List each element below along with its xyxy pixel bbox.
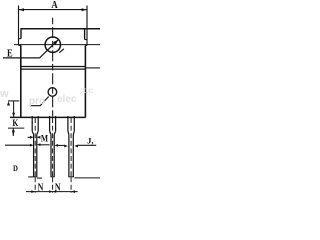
vertical centerline <box>52 18 54 117</box>
K arrow down <box>12 113 15 117</box>
arrowhead A right <box>82 8 88 11</box>
svg-text:N: N <box>55 181 61 192</box>
svg-text:pro: pro <box>29 96 45 107</box>
K upper extension line <box>8 100 19 102</box>
K lower extension line <box>8 127 24 129</box>
lead 1 <box>32 116 38 177</box>
D arrow at lead1 left <box>30 144 34 147</box>
watermark fragments <box>0 85 93 107</box>
K dimension line vertical <box>13 101 15 117</box>
lead 2 centerline <box>52 118 54 176</box>
label D <box>13 163 18 173</box>
N arrows at center lead <box>49 190 53 193</box>
lead 2 tip extension <box>52 177 54 193</box>
svg-text:J,: J, <box>87 135 93 145</box>
hole leader diagonal <box>40 40 58 58</box>
TO-220 package outline drawing <box>0 0 100 194</box>
body bottom edge <box>10 116 85 118</box>
dimension label A <box>51 0 57 11</box>
extension line A left / ear outer left <box>18 6 20 46</box>
lead tip line left stub <box>28 176 33 178</box>
small circle leader <box>30 97 49 106</box>
D dimension line left <box>5 144 30 146</box>
label E <box>7 48 13 60</box>
package top edge (extended to right image edge) <box>21 28 100 30</box>
svg-text:D: D <box>13 163 18 173</box>
right ear step <box>85 39 87 41</box>
D arrow at lead2 right <box>54 144 58 147</box>
left upper edge <box>20 28 22 38</box>
body line 1 <box>21 66 86 68</box>
lead 3 centerline <box>70 118 72 176</box>
label N left <box>38 181 44 192</box>
svg-text:elec: elec <box>57 94 77 105</box>
lead 3 tip extension <box>70 177 72 193</box>
D line right tail <box>78 144 97 146</box>
right body edge <box>84 45 86 117</box>
D arrow at lead3 left <box>64 145 68 148</box>
D line lead1-lead2 <box>40 144 50 146</box>
label J <box>87 135 93 145</box>
N dimension line <box>26 191 78 193</box>
left body edge <box>20 45 22 117</box>
mounting hole <box>45 37 60 52</box>
right ear bottom <box>85 44 87 46</box>
tab boundary line (left part with E) <box>3 57 40 59</box>
arrow below K line <box>12 130 15 135</box>
D arrow at lead1 right <box>37 143 41 146</box>
M dimension left arrow <box>28 136 31 138</box>
svg-text:K: K <box>12 117 18 128</box>
svg-text:M: M <box>41 133 49 144</box>
left ear bottom <box>19 44 22 46</box>
svg-text:E: E <box>7 48 13 60</box>
D arrow at lead3 right <box>74 145 78 148</box>
lead 1 tip extension <box>34 177 36 193</box>
hole horizontal centerline <box>14 44 100 46</box>
body line 2 <box>21 68 86 70</box>
small index circle <box>48 88 57 97</box>
lead tip line mid stub <box>37 177 42 179</box>
body line right extension <box>85 67 100 69</box>
right upper edge <box>84 28 86 39</box>
lead 2 <box>50 116 56 177</box>
D line lead2-lead3 <box>58 144 65 146</box>
K arrow up <box>7 101 10 105</box>
N arrow outer left <box>31 190 35 193</box>
leader arrowhead <box>53 40 58 45</box>
dimension line A <box>19 9 88 11</box>
K lower stub vertical <box>12 128 14 136</box>
lead tip line right extension <box>75 177 101 179</box>
svg-text:t.c: t.c <box>83 85 93 95</box>
left ear step <box>19 38 22 40</box>
arrowhead A left <box>19 8 25 11</box>
M dimension right arrow <box>37 136 41 139</box>
extension line A right / ear outer right <box>86 6 88 46</box>
lead 1 centerline <box>34 118 36 176</box>
svg-text:w: w <box>0 88 9 100</box>
N arrow outer right <box>71 190 75 193</box>
lead 3 <box>68 116 74 177</box>
label M <box>41 133 49 144</box>
label N right <box>55 181 61 192</box>
label K <box>12 117 18 128</box>
leader stub lower right <box>59 49 64 53</box>
svg-text:N: N <box>38 181 44 192</box>
